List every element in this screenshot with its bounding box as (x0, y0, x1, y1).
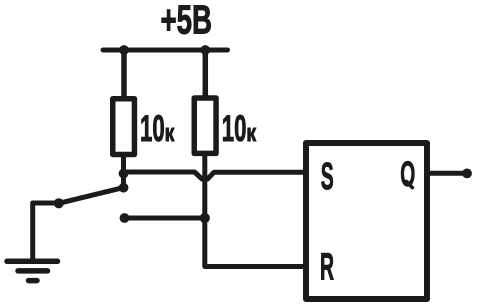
svg-text:10: 10 (222, 108, 247, 149)
svg-text:к: к (246, 119, 256, 146)
svg-text:S: S (321, 156, 334, 198)
svg-text:+5В: +5В (161, 0, 213, 43)
svg-text:10: 10 (140, 108, 165, 149)
svg-text:к: к (165, 119, 175, 146)
svg-text:R: R (320, 247, 334, 289)
